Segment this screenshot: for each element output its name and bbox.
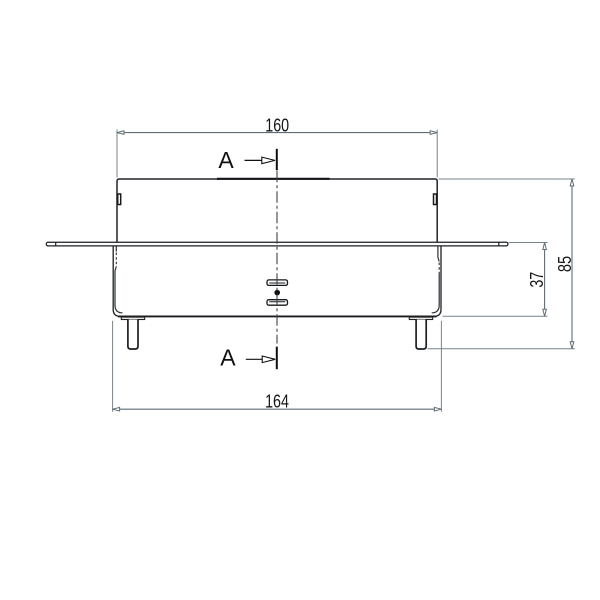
svg-text:37: 37 [527, 272, 547, 288]
upper body right clip notch [434, 194, 437, 205]
section cut line top [276, 149, 278, 170]
section arrow bottom [246, 358, 262, 360]
lower body bottom edge [118, 315, 437, 317]
svg-text:A: A [218, 147, 234, 173]
dimension 164 line [113, 408, 442, 410]
dimension 164 arrow right [434, 407, 441, 411]
center clip lower [267, 300, 288, 306]
dimension 85 extension line top [439, 178, 575, 180]
lower body right inner wall [438, 246, 439, 262]
lower body left outer wall [113, 246, 120, 317]
section arrow top [245, 159, 262, 161]
dimension 85 arrow bottom [570, 342, 574, 349]
dimension 160 line [117, 132, 437, 134]
dimension 160 extension line right [436, 130, 438, 178]
flange right divider [498, 242, 500, 246]
flange left divider [55, 242, 57, 246]
lower body left inner wall [115, 246, 117, 252]
center stud dot [274, 290, 280, 296]
dimension 37 extension line top [509, 242, 548, 244]
upper body top edge dark overlap segment [217, 178, 330, 180]
dimension 160 arrow left [117, 131, 124, 135]
svg-text:85: 85 [554, 256, 575, 272]
right foot pad [409, 317, 432, 319]
dimension 37 arrow top [543, 243, 547, 250]
center clip upper [267, 280, 288, 286]
flange bar [46, 242, 508, 246]
dimension 85 line [571, 179, 573, 349]
dimension 37 line [544, 243, 546, 317]
dimension 164 extension line left [112, 321, 114, 412]
dimension 85 arrow top [570, 179, 574, 186]
svg-text:164: 164 [265, 392, 289, 412]
lower body right outer wall [434, 246, 441, 317]
svg-text:A: A [220, 345, 236, 371]
svg-text:160: 160 [265, 116, 289, 136]
dimension 37 extension line bottom [443, 315, 548, 317]
dimension 160 extension line left [116, 130, 118, 178]
left foot pad [121, 317, 144, 319]
left leg [128, 320, 138, 350]
dimension 164 arrow left [113, 407, 120, 411]
section cut line bottom [276, 347, 278, 370]
right leg [416, 320, 426, 350]
dimension 160 arrow right [430, 131, 437, 135]
dimension 164 extension line right [440, 321, 442, 412]
dimension 37 arrow bottom [543, 309, 547, 316]
centerline [276, 171, 278, 344]
dimension 85 extension line bottom [428, 348, 575, 350]
upper body left clip notch [118, 194, 121, 205]
upper body outline [117, 179, 437, 242]
